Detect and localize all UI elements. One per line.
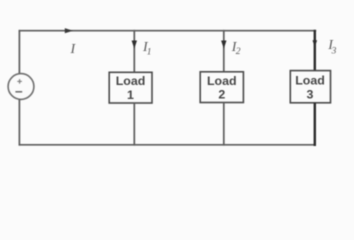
wire: branch 3 lower (thick)	[314, 103, 316, 146]
wire: branch 1 lower	[133, 103, 135, 146]
wire: bottom bus	[19, 144, 316, 146]
arrow: current I1	[132, 41, 137, 49]
svg-text:1: 1	[147, 47, 152, 57]
svg-text:Load: Load	[207, 74, 237, 88]
voltage source	[8, 74, 34, 100]
wire: left vertical below source	[18, 100, 20, 146]
arrow: current I on top bus	[65, 28, 73, 33]
load box Load 1	[109, 72, 152, 103]
wire: top bus	[19, 30, 317, 32]
svg-text:2: 2	[218, 88, 225, 102]
load box Load 3	[290, 71, 330, 103]
wire: left vertical (source branch)	[18, 30, 20, 74]
arrow: current I2	[221, 41, 226, 49]
svg-text:3: 3	[331, 47, 337, 57]
arrow: current I3	[313, 40, 318, 47]
wire: branch 2 upper	[223, 30, 225, 72]
svg-text:Load: Load	[116, 74, 146, 88]
wire: branch 2 lower	[223, 103, 225, 146]
wire: branch 3 upper (thick)	[314, 30, 316, 71]
svg-text:2: 2	[236, 47, 241, 57]
svg-text:1: 1	[127, 88, 134, 102]
wire: branch 1 upper	[133, 30, 135, 72]
load box Load 2	[200, 72, 243, 103]
svg-text:Load: Load	[295, 74, 325, 88]
svg-text:3: 3	[307, 88, 314, 102]
